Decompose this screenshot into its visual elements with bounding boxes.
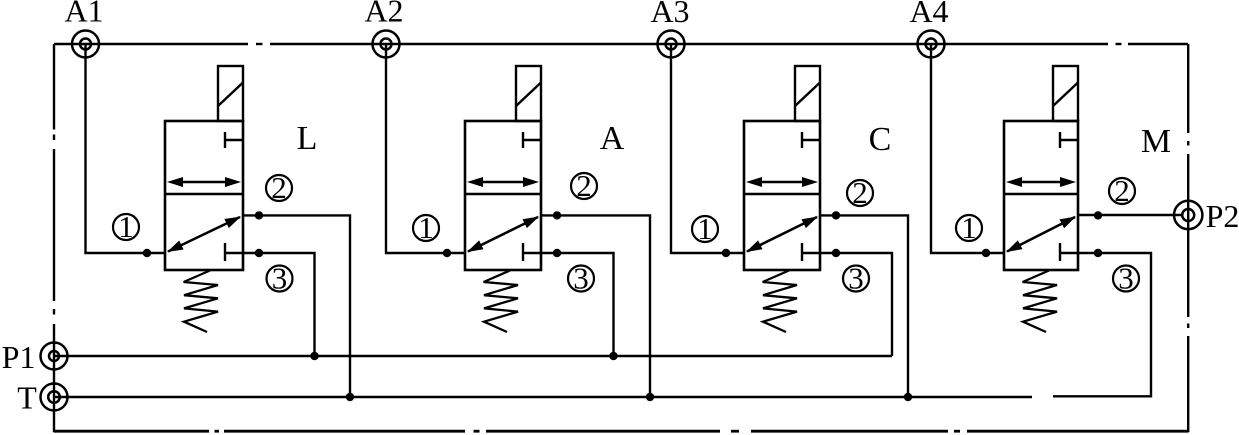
port P1 (41, 343, 68, 370)
valve A: body (465, 121, 541, 270)
svg-text:M: M (1141, 123, 1171, 160)
return spring of valve M (1023, 271, 1057, 333)
node: valve L port 2 junction on T rail (346, 393, 354, 401)
solenoid actuator of valve A (516, 66, 541, 121)
node: valve C port 2 (832, 211, 840, 219)
wire: valve C port 2 to T rail (820, 215, 908, 397)
svg-text:T: T (17, 380, 37, 416)
valve C: shift double arrow (746, 177, 818, 187)
wire: manifold frame left chain line (53, 44, 55, 432)
valve M: body (1004, 121, 1078, 270)
node: valve M port 2 (1094, 211, 1102, 219)
node: valve C port 2 junction on T rail (904, 393, 912, 401)
wire: valve L port 2 to T rail (243, 215, 350, 397)
node: valve A port 3 junction on P1 rail (609, 352, 617, 360)
valve A: blocked port symbol (top position) (523, 132, 541, 148)
solenoid actuator of valve M (1053, 66, 1078, 121)
valve M: node port 1 junction (982, 249, 990, 257)
svg-text:1: 1 (118, 209, 134, 244)
svg-text:2: 2 (576, 168, 592, 203)
svg-text:2: 2 (1114, 173, 1130, 208)
port A3 (658, 31, 685, 58)
node 2 of valve C (847, 175, 873, 210)
node 1 of valve L (113, 209, 139, 244)
valve C: A-port supply wire (671, 44, 744, 253)
svg-text:A3: A3 (650, 0, 689, 29)
port A2 (373, 31, 400, 58)
svg-text:1: 1 (697, 211, 713, 246)
svg-text:A: A (600, 120, 625, 157)
valve C: blocked port symbol (bottom position) (802, 243, 820, 261)
valve C: body (744, 121, 820, 270)
valve L: node port 1 junction (143, 249, 151, 257)
svg-text:A1: A1 (64, 0, 103, 29)
valve C: node port 1 junction (722, 249, 730, 257)
svg-text:1: 1 (418, 210, 434, 245)
node 3 of valve L (267, 261, 293, 296)
valve M: blocked port symbol (top position) (1060, 132, 1078, 148)
svg-text:C: C (869, 121, 892, 158)
valve A: body position divider (465, 193, 541, 196)
valve M: body position divider (1004, 193, 1078, 196)
node 2 of valve M (1109, 173, 1135, 208)
node: valve L port 3 junction on P1 rail (310, 352, 318, 360)
valve L: blocked port symbol (bottom position) (225, 243, 243, 261)
node 1 of valve C (692, 211, 718, 246)
svg-text:3: 3 (573, 261, 589, 296)
valve A: flow path arrow (bottom position) (467, 217, 539, 253)
node 1 of valve M (956, 210, 982, 245)
svg-text:1: 1 (961, 210, 977, 245)
solenoid actuator of valve L (218, 66, 243, 121)
valve M: flow path arrow (bottom position) (1006, 217, 1076, 253)
node: valve L port 2 (255, 211, 263, 219)
node: valve C port 3 (832, 249, 840, 257)
wire: manifold frame top chain line (54, 43, 1188, 45)
node: valve A port 3 (553, 249, 561, 257)
node 2 of valve A (571, 168, 597, 203)
port A1 (72, 31, 99, 58)
valve C: body position divider (744, 193, 820, 196)
valve C: flow path arrow (bottom position) (746, 217, 818, 253)
svg-text:L: L (297, 120, 318, 157)
solenoid actuator of valve C (795, 66, 820, 121)
svg-text:P2: P2 (1206, 198, 1239, 234)
wire: manifold frame right chain line (1187, 44, 1189, 432)
svg-text:2: 2 (852, 175, 868, 210)
valve L: body position divider (165, 193, 243, 196)
valve C: blocked port symbol (top position) (802, 132, 820, 148)
wire: valve A port 2 to T rail (541, 215, 650, 397)
svg-text:A4: A4 (909, 0, 948, 29)
svg-text:3: 3 (1118, 261, 1134, 296)
wire: manifold frame bottom chain line (54, 430, 1188, 433)
svg-text:3: 3 (848, 261, 864, 296)
valve A: node port 1 junction (443, 249, 451, 257)
svg-text:3: 3 (272, 261, 288, 296)
valve L: body (165, 121, 243, 270)
node 3 of valve C (843, 261, 869, 296)
return spring of valve L (184, 271, 218, 333)
valve A: shift double arrow (467, 177, 539, 187)
wire: valve M port 2 to P2 port (1078, 214, 1183, 216)
valve A: A-port supply wire (386, 44, 465, 253)
svg-text:A2: A2 (364, 0, 403, 29)
wire: valve L port 3 to P1 rail (243, 253, 315, 356)
wire: valve C port 3 to P1 rail end (820, 253, 892, 356)
wire: valve M port 3 stub (1053, 253, 1151, 396)
node 3 of valve A (568, 261, 594, 296)
valve A: blocked port symbol (bottom position) (523, 243, 541, 261)
port A4 (918, 31, 945, 58)
node: valve M port 3 (1094, 249, 1102, 257)
node: valve A port 2 junction on T rail (646, 393, 654, 401)
wire: T tank rail (54, 396, 1032, 398)
valve M: blocked port symbol (bottom position) (1060, 243, 1078, 261)
valve M: A-port supply wire (931, 44, 1004, 253)
node 2 of valve L (266, 170, 292, 205)
valve L: flow path arrow (bottom position) (167, 217, 241, 253)
node 3 of valve M (1113, 261, 1139, 296)
return spring of valve A (484, 271, 518, 333)
valve L: shift double arrow (167, 177, 241, 187)
svg-text:2: 2 (271, 170, 287, 205)
wire: valve A port 3 to P1 rail (541, 253, 614, 356)
port P2 (1174, 201, 1202, 229)
node: valve L port 3 (255, 249, 263, 257)
valve L: A-port supply wire (86, 44, 166, 253)
svg-text:P1: P1 (2, 339, 36, 375)
port T (41, 384, 68, 411)
valve L: blocked port symbol (top position) (225, 132, 243, 148)
return spring of valve C (763, 271, 797, 333)
node: valve A port 2 (553, 211, 561, 219)
wire: P1 pressure rail (54, 355, 892, 357)
valve M: shift double arrow (1006, 177, 1076, 187)
node 1 of valve A (413, 210, 439, 245)
